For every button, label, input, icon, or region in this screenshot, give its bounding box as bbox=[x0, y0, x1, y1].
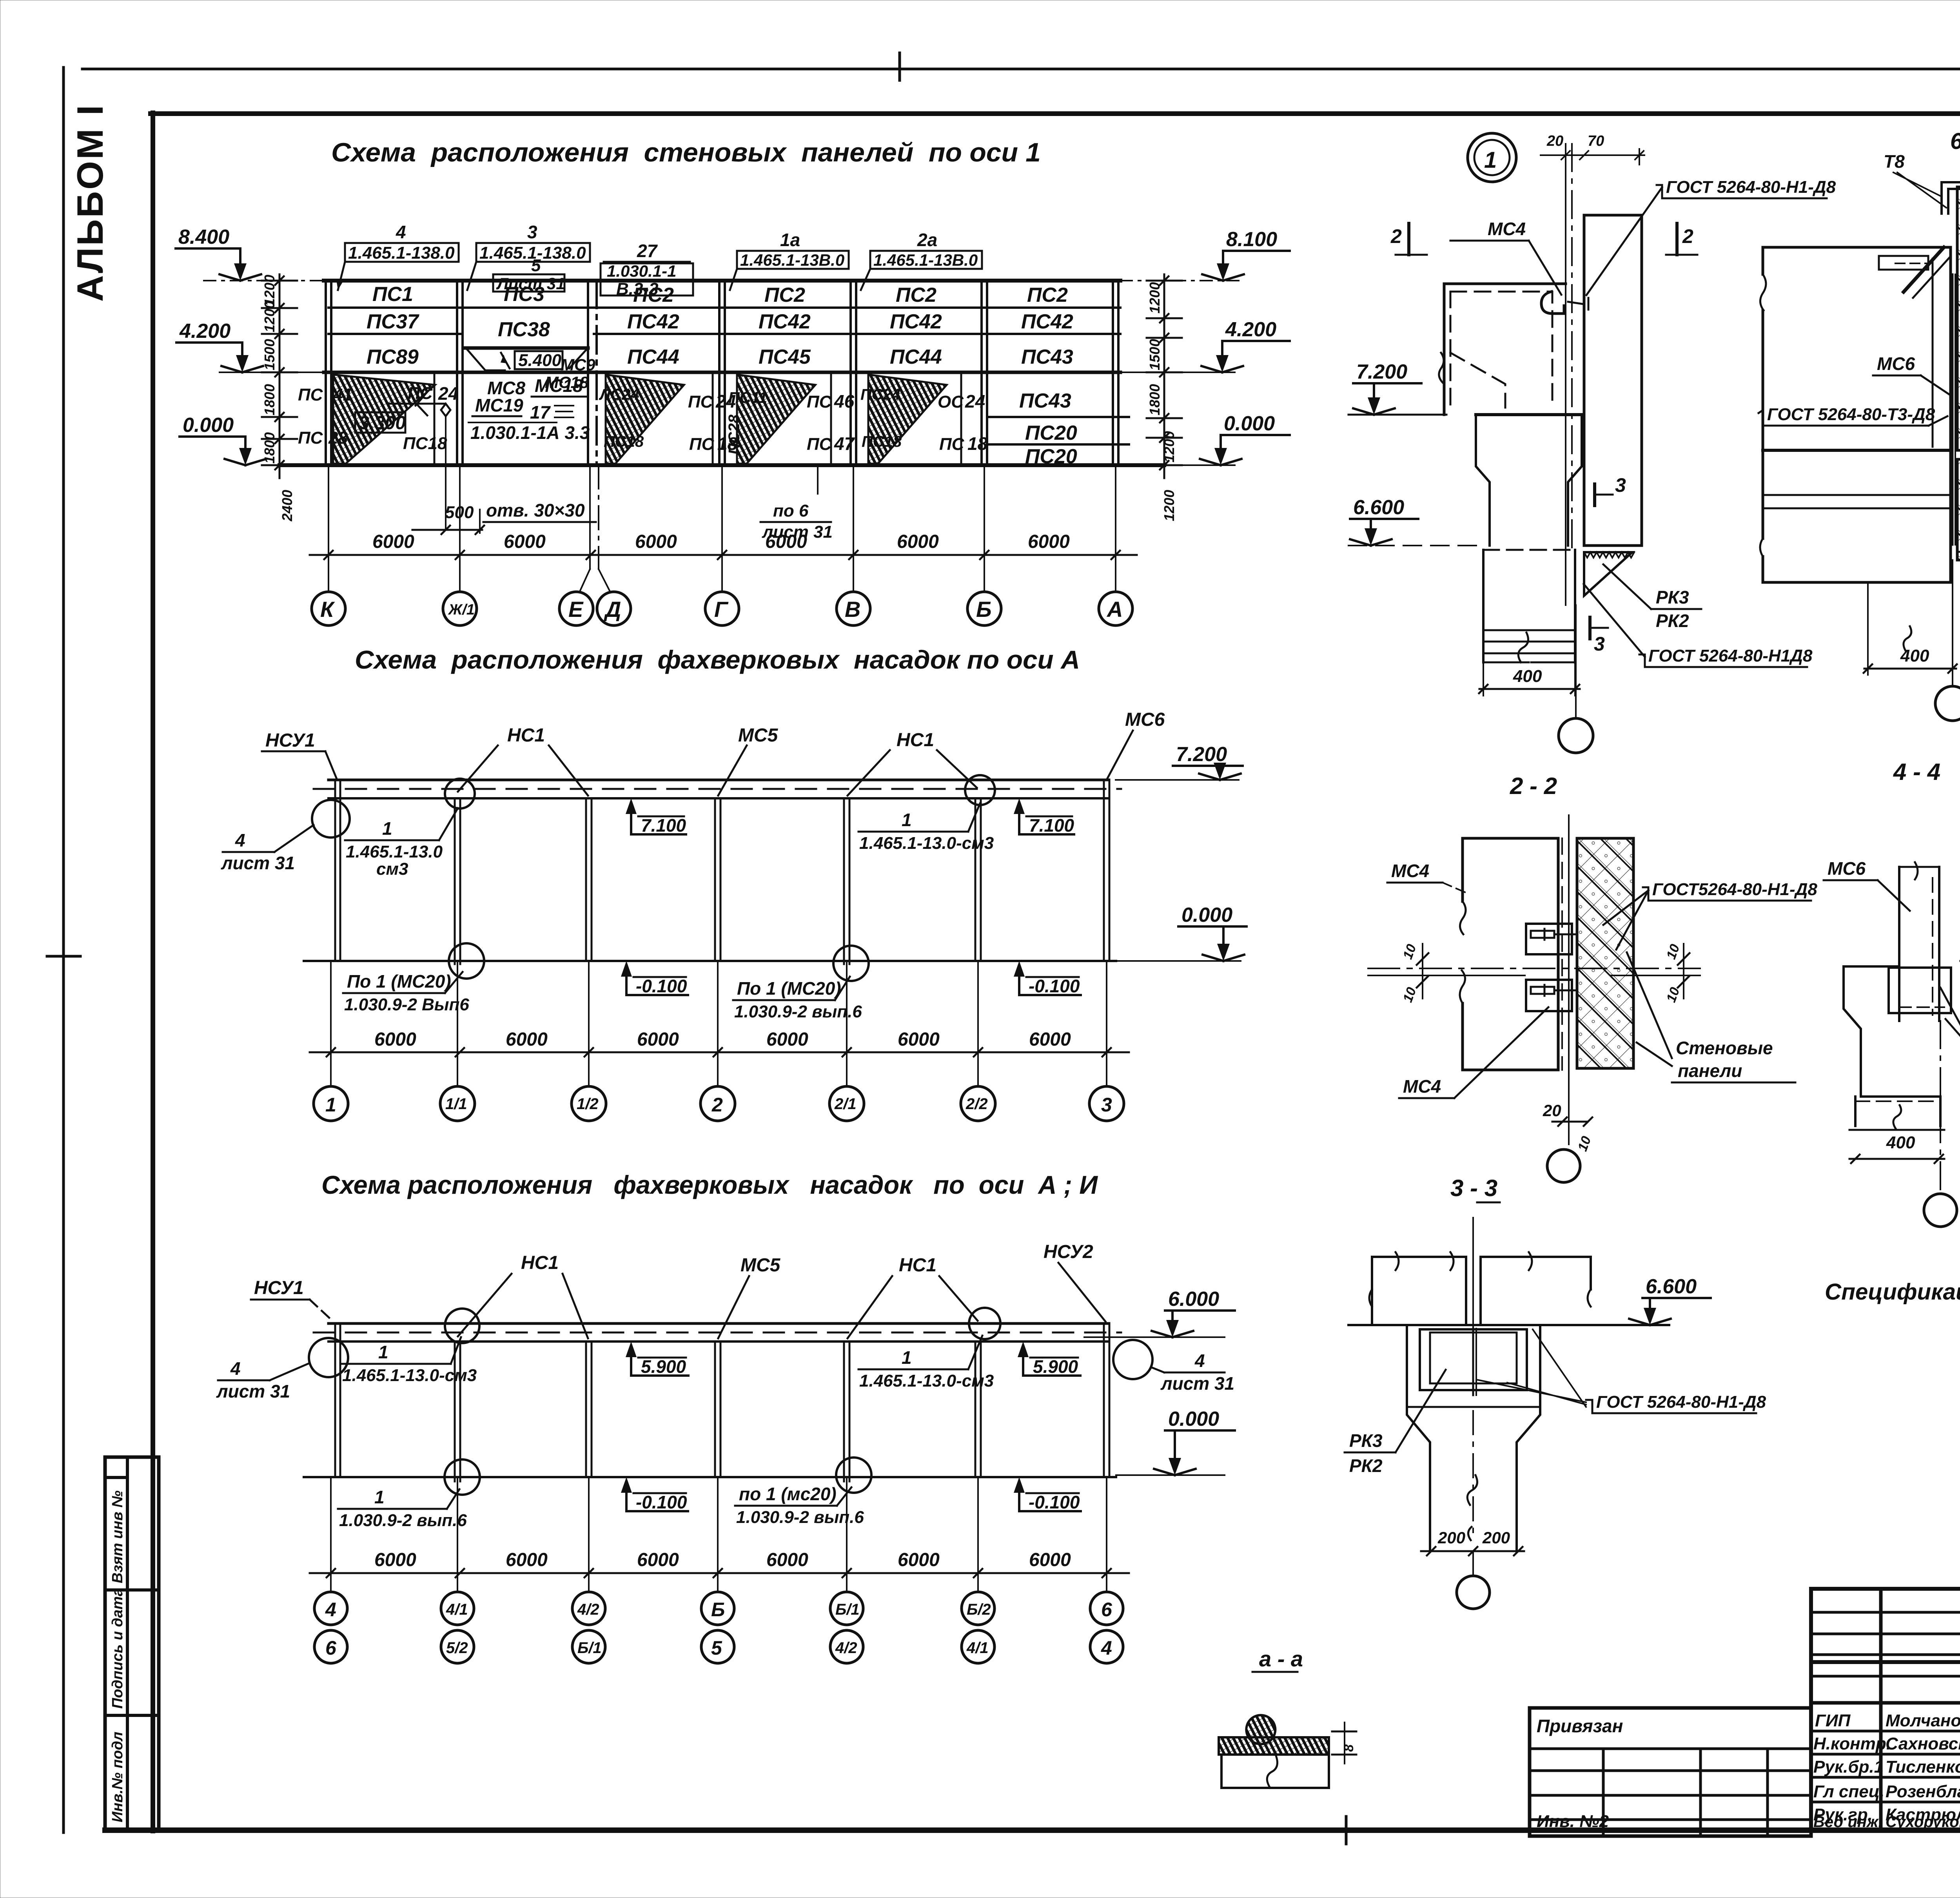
svg-text:5.400: 5.400 bbox=[518, 351, 562, 370]
svg-text:-0.100: -0.100 bbox=[1029, 976, 1080, 996]
svg-text:6000: 6000 bbox=[1029, 1550, 1071, 1570]
posts bbox=[335, 1325, 1109, 1481]
column below 7.200 bbox=[1476, 415, 1582, 546]
svg-text:ПС1: ПС1 bbox=[372, 283, 413, 306]
svg-text:ПС42: ПС42 bbox=[1021, 310, 1073, 333]
svg-text:по 1 (мс20): по 1 (мс20) bbox=[739, 1484, 837, 1504]
svg-text:ПС42: ПС42 bbox=[890, 310, 942, 333]
svg-text:МС5: МС5 bbox=[740, 1255, 781, 1276]
svg-text:17: 17 bbox=[530, 402, 551, 422]
dark wedge bay5 bbox=[868, 375, 947, 464]
row line under PS37 bbox=[328, 333, 463, 335]
svg-text:6.000: 6.000 bbox=[1168, 1288, 1219, 1311]
bolt bracket upper bbox=[1526, 924, 1572, 954]
svg-text:3: 3 bbox=[1101, 1094, 1112, 1116]
svg-text:Б/1: Б/1 bbox=[577, 1639, 602, 1657]
wall panel plan hatched bbox=[1577, 838, 1633, 1068]
svg-text:4: 4 bbox=[1101, 1637, 1112, 1659]
svg-text:МС6: МС6 bbox=[1828, 858, 1866, 879]
4.200 panel line bbox=[324, 371, 1120, 374]
svg-text:8.100: 8.100 bbox=[1226, 228, 1277, 251]
svg-text:0.000: 0.000 bbox=[1224, 412, 1275, 435]
svg-text:20: 20 bbox=[1543, 1101, 1561, 1120]
svg-text:1.030.9-2 вып.6: 1.030.9-2 вып.6 bbox=[339, 1511, 467, 1530]
svg-text:6000: 6000 bbox=[506, 1550, 548, 1570]
svg-text:ГОСТ 5264-80-Т3-Д8: ГОСТ 5264-80-Т3-Д8 bbox=[1767, 405, 1935, 424]
svg-text:1: 1 bbox=[374, 1487, 385, 1507]
svg-text:НС1: НС1 bbox=[507, 725, 545, 746]
joint center line bbox=[1472, 1218, 1474, 1329]
svg-text:Б: Б bbox=[976, 597, 992, 622]
svg-text:7.100: 7.100 bbox=[1029, 815, 1074, 836]
svg-text:Т8: Т8 bbox=[1884, 151, 1905, 172]
axis to circle bbox=[1952, 560, 1953, 686]
svg-text:МС18: МС18 bbox=[545, 373, 589, 392]
svg-text:5.900: 5.900 bbox=[1033, 1356, 1078, 1377]
beam bbox=[328, 1322, 1109, 1325]
svg-text:10: 10 bbox=[1575, 1134, 1594, 1153]
svg-text:4.200: 4.200 bbox=[1225, 318, 1276, 341]
svg-text:Инв.№ подл: Инв.№ подл bbox=[109, 1732, 126, 1822]
svg-text:20: 20 bbox=[1546, 133, 1563, 149]
right dim chain bbox=[1147, 274, 1182, 478]
svg-text:см3: см3 bbox=[376, 859, 408, 879]
svg-text:6000: 6000 bbox=[766, 1550, 808, 1570]
svg-text:ПС89: ПС89 bbox=[367, 346, 419, 368]
bolt bracket lower bbox=[1526, 980, 1572, 1011]
svg-text:0.000: 0.000 bbox=[1168, 1408, 1219, 1430]
svg-text:0.000: 0.000 bbox=[183, 414, 234, 437]
svg-text:6: 6 bbox=[1101, 1599, 1112, 1621]
svg-text:6000: 6000 bbox=[506, 1029, 548, 1050]
svg-text:400: 400 bbox=[1513, 667, 1542, 686]
svg-text:41: 41 bbox=[333, 385, 352, 404]
svg-text:24: 24 bbox=[965, 391, 985, 412]
svg-text:2: 2 bbox=[1390, 225, 1402, 247]
svg-text:6.600: 6.600 bbox=[1353, 496, 1404, 519]
svg-text:ГОСТ5264-80-Н1-Д8: ГОСТ5264-80-Н1-Д8 bbox=[1652, 880, 1817, 899]
svg-text:В.3-3: В.3-3 bbox=[616, 279, 659, 299]
axis extensions bbox=[331, 1477, 1107, 1592]
svg-text:5: 5 bbox=[531, 256, 541, 275]
lower column part bbox=[1855, 1097, 1940, 1126]
svg-text:1.465.1-13.0-см3: 1.465.1-13.0-см3 bbox=[859, 1371, 994, 1390]
svg-text:1.465.1-13.0: 1.465.1-13.0 bbox=[346, 842, 443, 861]
svg-text:ПС42: ПС42 bbox=[759, 310, 811, 333]
svg-text:6000: 6000 bbox=[1029, 1029, 1071, 1050]
slab with hatch bbox=[1219, 1737, 1329, 1755]
svg-text:НСУ2: НСУ2 bbox=[1044, 1242, 1093, 1262]
svg-text:8: 8 bbox=[1341, 1744, 1356, 1752]
svg-text:Инв. №2: Инв. №2 bbox=[1537, 1812, 1609, 1831]
svg-text:ОС: ОС bbox=[938, 392, 964, 412]
svg-text:По 1 (МС20): По 1 (МС20) bbox=[347, 971, 451, 992]
circle rows bbox=[314, 1592, 1123, 1663]
-0.100 marks bbox=[625, 1483, 628, 1511]
svg-text:1800: 1800 bbox=[261, 432, 278, 464]
svg-text:ПС2: ПС2 bbox=[1027, 284, 1068, 306]
wall panel right bbox=[1584, 215, 1642, 546]
svg-text:6000: 6000 bbox=[637, 1550, 679, 1570]
svg-text:лист 31: лист 31 bbox=[216, 1381, 290, 1401]
axis to circle bbox=[1940, 1021, 1941, 1193]
svg-text:Е: Е bbox=[568, 597, 584, 622]
svg-text:5.900: 5.900 bbox=[641, 1356, 686, 1377]
left beam block bbox=[1763, 247, 1951, 582]
svg-text:ПС: ПС bbox=[298, 385, 323, 404]
svg-text:ПС: ПС bbox=[807, 392, 832, 412]
svg-text:7.200: 7.200 bbox=[1356, 361, 1407, 383]
svg-text:2/1: 2/1 bbox=[834, 1095, 857, 1113]
svg-text:Схема расположения фахверков: Схема расположения фахверковых насадок п… bbox=[355, 645, 1080, 674]
6000 dims bbox=[374, 1029, 1071, 1050]
column plan rect bbox=[1463, 838, 1558, 1070]
svg-text:Молчанов: Молчанов bbox=[1886, 1711, 1960, 1730]
svg-text:5: 5 bbox=[711, 1637, 722, 1659]
svg-text:46: 46 bbox=[834, 391, 855, 412]
svg-text:1800: 1800 bbox=[261, 384, 278, 415]
right slab bbox=[1481, 1257, 1591, 1325]
200 200 dims bbox=[1421, 1550, 1524, 1552]
svg-text:1.030.1-1А 3.3: 1.030.1-1А 3.3 bbox=[470, 422, 590, 443]
svg-text:Лист 31: Лист 31 bbox=[496, 274, 565, 293]
svg-text:ПС45: ПС45 bbox=[759, 346, 811, 368]
svg-text:2а: 2а bbox=[917, 230, 937, 250]
svg-text:ГИП: ГИП bbox=[1815, 1711, 1851, 1730]
svg-text:НСУ1: НСУ1 bbox=[254, 1278, 304, 1298]
svg-text:4.200: 4.200 bbox=[179, 320, 230, 343]
svg-text:6000: 6000 bbox=[374, 1029, 416, 1050]
ground line bbox=[304, 960, 1116, 962]
svg-text:1200: 1200 bbox=[1161, 490, 1177, 521]
axis extensions and circles bbox=[331, 961, 1107, 1086]
svg-text:4: 4 bbox=[1194, 1351, 1205, 1371]
svg-text:1: 1 bbox=[325, 1094, 336, 1116]
svg-text:НСУ1: НСУ1 bbox=[265, 730, 315, 751]
svg-text:К: К bbox=[320, 597, 335, 622]
svg-text:Б: Б bbox=[711, 1599, 725, 1621]
circles on posts bbox=[309, 1338, 348, 1377]
svg-text:ПС11: ПС11 bbox=[728, 389, 767, 406]
svg-text:3: 3 bbox=[1615, 474, 1626, 496]
svg-text:ПС20: ПС20 bbox=[1025, 422, 1077, 444]
400 dim bbox=[1849, 1129, 1944, 1131]
panel on corbel bbox=[1889, 968, 1951, 1013]
svg-text:МС19: МС19 bbox=[475, 395, 523, 415]
svg-text:200: 200 bbox=[1437, 1528, 1465, 1547]
svg-text:1200: 1200 bbox=[261, 301, 278, 332]
svg-text:1.030.9-2 вып.6: 1.030.9-2 вып.6 bbox=[734, 1002, 862, 1021]
svg-text:2: 2 bbox=[1682, 225, 1693, 247]
node circle 1 bbox=[1468, 133, 1516, 182]
beam horizontal lines bbox=[1763, 449, 1951, 452]
svg-text:Рук.бр.1: Рук.бр.1 bbox=[1813, 1757, 1884, 1777]
svg-text:6000: 6000 bbox=[766, 1029, 808, 1050]
top small circles on posts bbox=[312, 800, 350, 838]
svg-text:Д: Д bbox=[604, 597, 621, 622]
svg-text:ЛС24: ЛС24 bbox=[599, 386, 639, 403]
svg-text:ПС: ПС bbox=[939, 435, 965, 454]
svg-text:МС4: МС4 bbox=[1403, 1076, 1441, 1097]
svg-text:По 1 (МС20): По 1 (МС20) bbox=[737, 978, 841, 999]
svg-text:1.465.1-138.0: 1.465.1-138.0 bbox=[348, 243, 455, 263]
horizontal axis bbox=[1368, 968, 1700, 969]
svg-text:Спецификация дана на листа: Спецификация дана на листах 31,32 bbox=[1825, 1279, 1960, 1305]
joint axis double line bbox=[1565, 144, 1566, 605]
grid axis extensions below ground bbox=[328, 465, 1116, 592]
svg-text:1: 1 bbox=[378, 1342, 388, 1362]
svg-text:1: 1 bbox=[382, 818, 392, 839]
svg-text:1.030.1-1: 1.030.1-1 bbox=[607, 262, 676, 280]
left part of name column bbox=[1811, 1701, 1960, 1705]
svg-text:Б/2: Б/2 bbox=[967, 1601, 991, 1618]
svg-text:Ж/1: Ж/1 bbox=[448, 602, 475, 618]
svg-text:ПС43: ПС43 bbox=[1019, 390, 1071, 412]
svg-text:по 6: по 6 bbox=[773, 501, 809, 520]
svg-text:Подпись и дата: Подпись и дата bbox=[109, 1588, 126, 1709]
svg-text:6000: 6000 bbox=[637, 1029, 679, 1050]
svg-text:6 - 6: 6 - 6 bbox=[1950, 129, 1960, 154]
top bracket and strut bbox=[1879, 256, 1928, 270]
center dash line bbox=[1472, 1411, 1474, 1533]
svg-text:27: 27 bbox=[637, 241, 658, 261]
5.900 marks bbox=[630, 1348, 632, 1376]
svg-text:8.400: 8.400 bbox=[178, 226, 229, 248]
svg-text:Гл спец.: Гл спец. bbox=[1813, 1782, 1884, 1801]
svg-text:ПС44: ПС44 bbox=[627, 346, 679, 368]
svg-text:3: 3 bbox=[1594, 633, 1605, 655]
svg-text:6000: 6000 bbox=[898, 1550, 940, 1570]
big doc number row separator bbox=[1811, 1660, 1960, 1664]
left slab outline bbox=[1444, 284, 1566, 415]
svg-text:6000: 6000 bbox=[504, 531, 546, 552]
svg-text:ПС18: ПС18 bbox=[403, 434, 447, 453]
svg-text:4/2: 4/2 bbox=[835, 1639, 857, 1657]
svg-text:Тисленко: Тисленко bbox=[1886, 1757, 1960, 1777]
svg-text:ПС18: ПС18 bbox=[604, 433, 644, 450]
svg-text:А: А bbox=[1106, 597, 1123, 622]
svg-text:1500: 1500 bbox=[261, 339, 278, 370]
svg-text:РК2: РК2 bbox=[1656, 611, 1689, 631]
pedestal bbox=[1483, 550, 1575, 662]
svg-text:РК3: РК3 bbox=[1349, 1430, 1383, 1451]
bottom circles bbox=[449, 943, 484, 979]
svg-text:6000: 6000 bbox=[898, 1029, 940, 1050]
6000 dimension row bbox=[372, 531, 1070, 552]
svg-text:70: 70 bbox=[1588, 133, 1604, 149]
svg-text:ГОСТ 5264-80-Н1-Д8: ГОСТ 5264-80-Н1-Д8 bbox=[1666, 178, 1836, 197]
main stamp outline bbox=[1811, 1589, 1960, 1830]
svg-text:-0.100: -0.100 bbox=[636, 976, 687, 996]
svg-text:Взят инв №: Взят инв № bbox=[109, 1490, 126, 1583]
svg-text:Вед инж.: Вед инж. bbox=[1813, 1813, 1883, 1831]
svg-text:1.030.9-2 Вып6: 1.030.9-2 Вып6 bbox=[344, 995, 469, 1014]
signature table verticals bbox=[1879, 1589, 1883, 1830]
svg-text:6000: 6000 bbox=[372, 531, 414, 552]
svg-text:1500: 1500 bbox=[1147, 339, 1163, 370]
svg-text:1: 1 bbox=[1484, 147, 1497, 173]
svg-text:2 - 2: 2 - 2 bbox=[1510, 773, 1557, 799]
break in shaft bbox=[1467, 1475, 1477, 1505]
axis to circle bbox=[1575, 605, 1577, 718]
svg-text:1200: 1200 bbox=[1161, 431, 1177, 462]
joint plate between beam and panel bbox=[1952, 274, 1954, 545]
svg-text:4: 4 bbox=[325, 1599, 336, 1621]
svg-text:РК2: РК2 bbox=[1349, 1456, 1383, 1476]
row1 panel labels bbox=[367, 283, 1077, 468]
svg-text:лист 31: лист 31 bbox=[221, 853, 295, 873]
axis and circle bbox=[1472, 1551, 1474, 1575]
svg-text:2: 2 bbox=[711, 1094, 723, 1116]
svg-text:1/2: 1/2 bbox=[577, 1095, 599, 1113]
svg-text:В: В bbox=[845, 597, 860, 622]
left attach table bbox=[1530, 1708, 1811, 1836]
bay6 row lines bbox=[989, 416, 1129, 418]
svg-text:2400: 2400 bbox=[279, 490, 295, 522]
left stamp column bbox=[105, 1457, 159, 1830]
svg-text:ПС28: ПС28 bbox=[726, 414, 743, 455]
svg-text:МС4: МС4 bbox=[1391, 861, 1429, 881]
row line under PS1 bbox=[328, 306, 1120, 309]
joint dashed verticals bbox=[1561, 838, 1563, 1070]
-0.100 mark right bbox=[1018, 967, 1020, 995]
left slab bbox=[1372, 1257, 1466, 1325]
posts bbox=[335, 782, 1109, 964]
ground line bbox=[304, 1476, 1116, 1478]
dim ticks right bbox=[1332, 1731, 1356, 1733]
svg-text:ПС: ПС bbox=[688, 392, 713, 412]
7.100 mark left bbox=[627, 798, 628, 799]
svg-text:Стеновые: Стеновые bbox=[1676, 1038, 1773, 1058]
svg-text:3 - 3: 3 - 3 bbox=[1450, 1175, 1497, 1201]
svg-text:НС1: НС1 bbox=[897, 730, 934, 750]
svg-text:НС1: НС1 bbox=[899, 1255, 936, 1276]
corbel column outline bbox=[1844, 966, 1939, 1097]
svg-text:1: 1 bbox=[902, 1347, 912, 1368]
svg-text:1а: 1а bbox=[780, 230, 800, 250]
svg-text:0.000: 0.000 bbox=[1181, 904, 1232, 926]
MS6 column bbox=[1899, 867, 1939, 1021]
svg-text:400: 400 bbox=[1886, 1133, 1915, 1152]
svg-text:4/1: 4/1 bbox=[446, 1601, 468, 1618]
svg-text:а - а: а - а bbox=[1259, 1646, 1303, 1671]
svg-text:200: 200 bbox=[1482, 1528, 1510, 1547]
svg-text:НС1: НС1 bbox=[521, 1253, 559, 1273]
svg-text:-0.100: -0.100 bbox=[636, 1492, 687, 1512]
svg-text:ГОСТ 5264-80-Н1-Д8: ГОСТ 5264-80-Н1-Д8 bbox=[1596, 1392, 1766, 1412]
line under PS38 bay2 bbox=[465, 346, 588, 350]
ground line 0.000 bbox=[279, 463, 1164, 467]
svg-text:4/2: 4/2 bbox=[577, 1601, 599, 1618]
grid columns (double lines) bbox=[326, 281, 1118, 465]
svg-text:1200: 1200 bbox=[1147, 282, 1163, 314]
dark wedge bay3 bbox=[606, 375, 684, 464]
svg-text:ПС20: ПС20 bbox=[1025, 445, 1077, 468]
svg-text:РК3: РК3 bbox=[1656, 587, 1689, 607]
3 section marks bbox=[1593, 484, 1596, 506]
svg-text:ПС42: ПС42 bbox=[627, 310, 679, 333]
svg-text:Г: Г bbox=[714, 597, 729, 622]
svg-text:2/2: 2/2 bbox=[965, 1095, 988, 1113]
svg-text:Сухорукова: Сухорукова bbox=[1886, 1813, 1960, 1831]
svg-text:6000: 6000 bbox=[635, 531, 677, 552]
signature rows bbox=[1811, 1730, 1960, 1733]
MS4 hook bracket bbox=[1541, 292, 1564, 314]
main frame bbox=[151, 113, 155, 1831]
weld blob bbox=[1246, 1715, 1275, 1744]
svg-text:ПС43: ПС43 bbox=[1021, 346, 1073, 368]
svg-text:28: 28 bbox=[328, 428, 348, 448]
lower panel bbox=[1221, 1755, 1329, 1788]
svg-text:6000: 6000 bbox=[897, 531, 939, 552]
svg-text:ПС: ПС bbox=[298, 428, 323, 448]
svg-text:Б/1: Б/1 bbox=[835, 1601, 860, 1618]
svg-text:5/2: 5/2 bbox=[446, 1639, 468, 1657]
bay2 shape around 5400: small trapezoid walls bbox=[467, 350, 505, 370]
svg-text:10: 10 bbox=[1664, 942, 1683, 961]
svg-text:3.300: 3.300 bbox=[359, 413, 406, 433]
svg-text:МС6: МС6 bbox=[1125, 709, 1165, 730]
svg-text:МС5: МС5 bbox=[738, 725, 779, 746]
svg-text:АЛЬБОМ I: АЛЬБОМ I bbox=[69, 103, 111, 302]
svg-text:1.030.9-2 вып.6: 1.030.9-2 вып.6 bbox=[736, 1508, 864, 1527]
svg-text:Схема расположения фахверков: Схема расположения фахверковых насадок п… bbox=[321, 1170, 1098, 1199]
svg-text:ПС24: ПС24 bbox=[860, 386, 900, 403]
dark wedge bay1 bbox=[333, 375, 435, 464]
svg-text:1.465.1-13.0-см3: 1.465.1-13.0-см3 bbox=[859, 834, 994, 853]
panel column hatched lower bbox=[1957, 459, 1960, 560]
svg-text:6000: 6000 bbox=[765, 531, 807, 552]
svg-text:7.200: 7.200 bbox=[1176, 743, 1227, 766]
svg-text:МС4: МС4 bbox=[1488, 219, 1526, 239]
svg-text:отв. 30×30: отв. 30×30 bbox=[486, 500, 585, 520]
svg-text:6000: 6000 bbox=[1028, 531, 1070, 552]
panel column hatched upper bbox=[1957, 187, 1960, 450]
svg-text:4/1: 4/1 bbox=[966, 1639, 989, 1657]
svg-text:10: 10 bbox=[1400, 942, 1419, 961]
svg-text:6: 6 bbox=[325, 1637, 337, 1659]
svg-text:6000: 6000 bbox=[374, 1550, 416, 1570]
sheet outer thin border top bbox=[82, 68, 1960, 71]
circle bbox=[1547, 1149, 1580, 1182]
svg-text:4 - 4: 4 - 4 bbox=[1893, 759, 1940, 785]
svg-text:1800: 1800 bbox=[1147, 384, 1163, 415]
svg-text:ПС2: ПС2 bbox=[896, 284, 936, 306]
svg-text:Н.контр.: Н.контр. bbox=[1813, 1734, 1891, 1753]
5.400 box in bay2 bbox=[515, 351, 563, 369]
svg-text:1.465.1-13.0-см3: 1.465.1-13.0-см3 bbox=[342, 1366, 477, 1385]
svg-text:МС6: МС6 bbox=[1877, 353, 1915, 374]
svg-text:ПС: ПС bbox=[689, 435, 715, 454]
signature table horizontals (upper empty rows) bbox=[1811, 1611, 1960, 1614]
svg-text:1.465.1-13В.0: 1.465.1-13В.0 bbox=[740, 251, 844, 269]
svg-text:ПС38: ПС38 bbox=[498, 318, 550, 341]
left dim chain bbox=[262, 274, 297, 478]
svg-text:ГОСТ 5264-80-Н1Д8: ГОСТ 5264-80-Н1Д8 bbox=[1648, 646, 1813, 665]
T8 channel cap bbox=[1942, 182, 1960, 214]
svg-text:ПС: ПС bbox=[807, 435, 832, 454]
top panel line 8.400 bbox=[324, 279, 1120, 283]
svg-text:1/1: 1/1 bbox=[445, 1095, 467, 1113]
svg-text:24: 24 bbox=[438, 383, 458, 404]
svg-text:Привязан: Привязан bbox=[1537, 1716, 1623, 1736]
svg-text:-0.100: -0.100 bbox=[1029, 1492, 1080, 1512]
svg-text:18: 18 bbox=[967, 433, 988, 454]
6000 dims bbox=[374, 1550, 1071, 1570]
svg-text:4: 4 bbox=[235, 830, 245, 850]
svg-text:ПС37: ПС37 bbox=[367, 310, 419, 333]
svg-text:лист 31: лист 31 bbox=[1160, 1373, 1234, 1394]
